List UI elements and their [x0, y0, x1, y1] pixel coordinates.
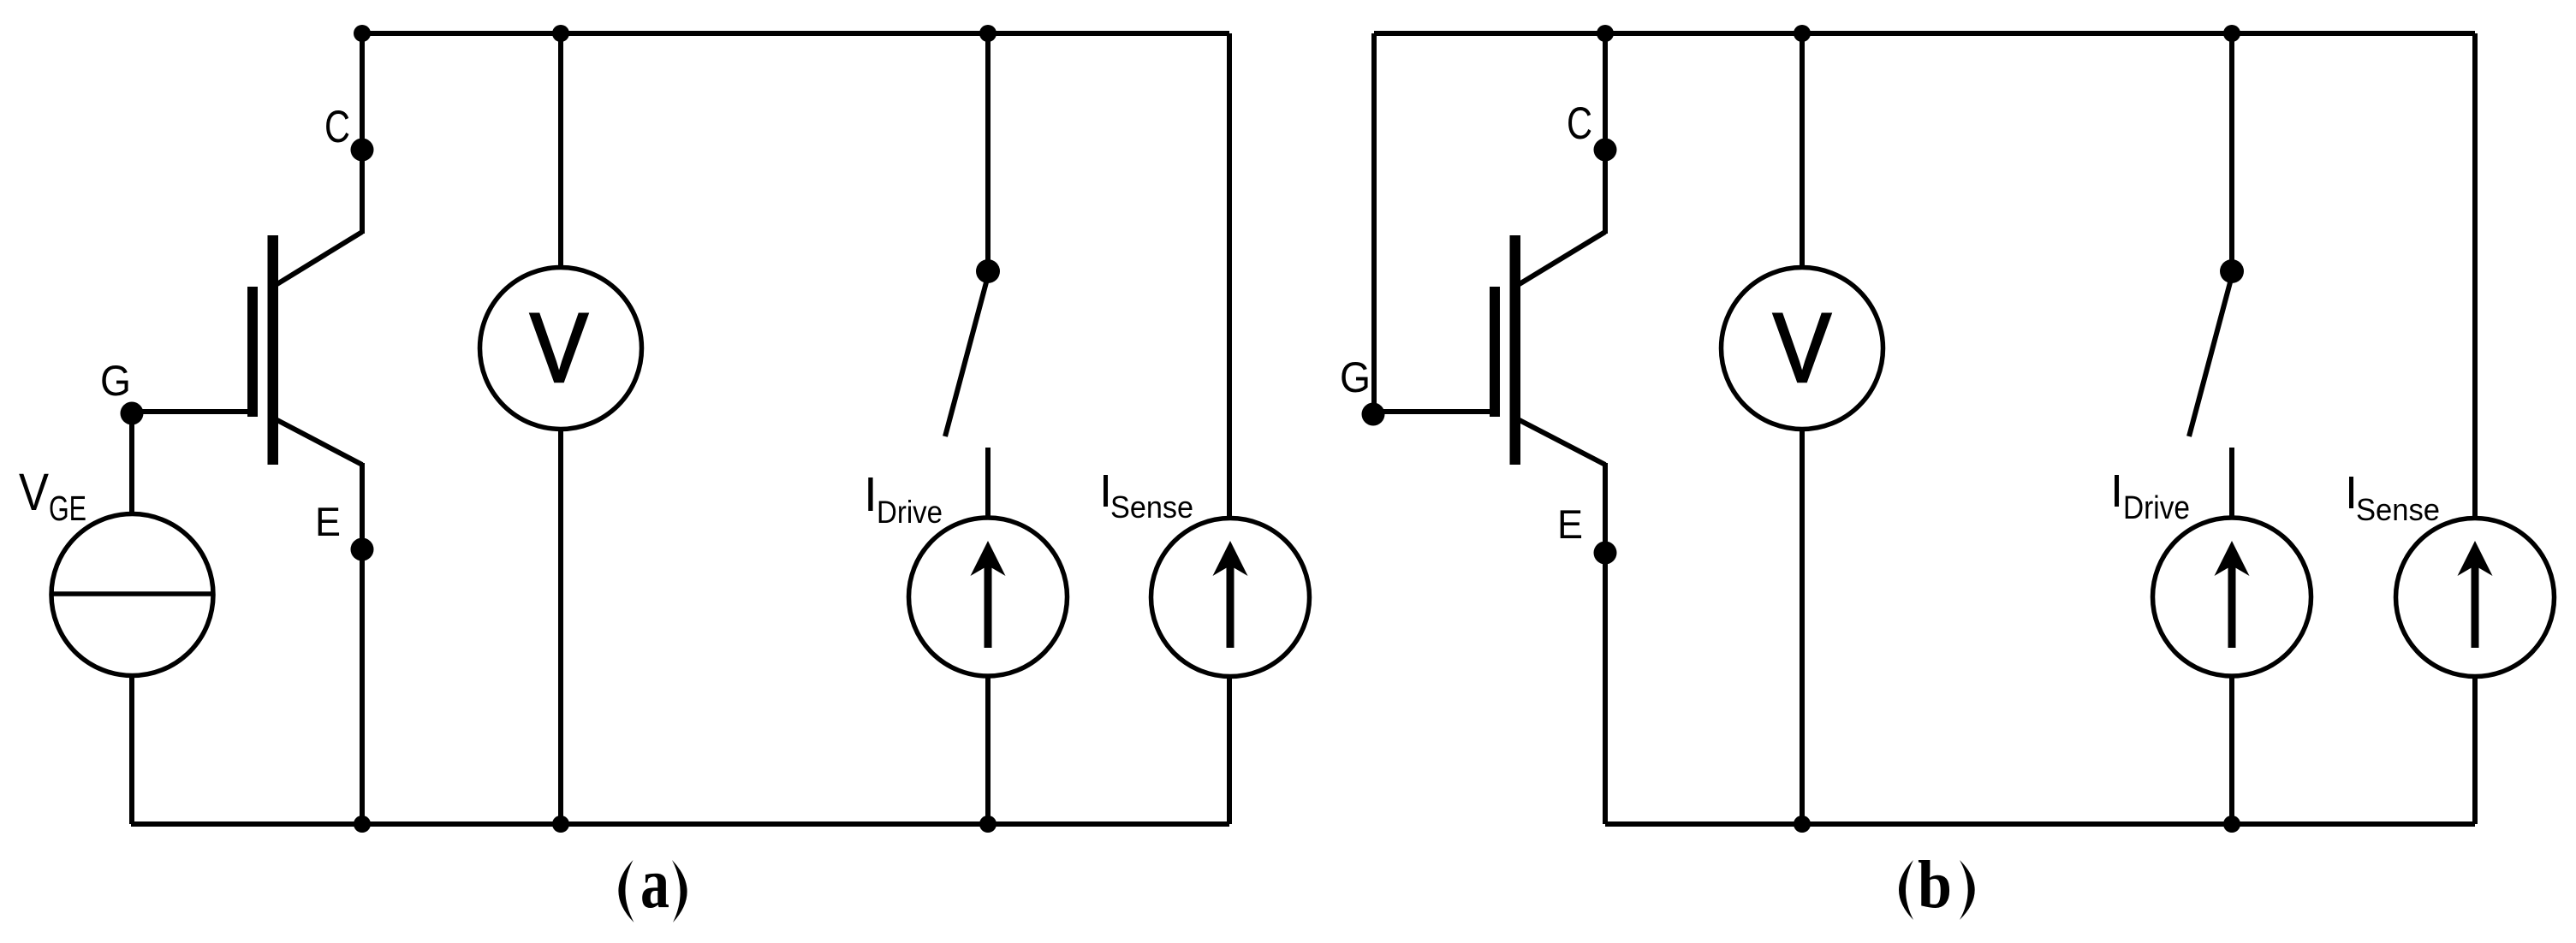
wire collector branch vertical (a) [360, 33, 365, 234]
svg-text:V: V [1773, 294, 1831, 403]
node C terminal dot (a) [351, 139, 374, 162]
wire left gate rail (b) [1371, 33, 1377, 414]
current source IDrive arrow shaft (b) [2228, 558, 2236, 648]
current source ISense arrow shaft (a) [1227, 558, 1234, 648]
current source IDrive arrow head (a) [971, 541, 1006, 576]
wire switch branch vertical (b) [2229, 33, 2234, 262]
wire gate lead (b) [1373, 409, 1496, 414]
node dot voltmeter top junction (a) [552, 25, 569, 42]
svg-text:Sense: Sense [1110, 489, 1193, 525]
svg-text:E: E [1557, 501, 1583, 547]
wire collector diagonal (b) [1518, 232, 1605, 285]
caption (a) right paren [672, 860, 687, 922]
current source ISense arrow head (b) [2458, 541, 2493, 576]
svg-text:Drive: Drive [877, 495, 943, 530]
node C terminal dot (b) [1594, 139, 1617, 162]
wire voltmeter top lead (b) [1800, 33, 1805, 268]
svg-text:V: V [530, 294, 588, 403]
svg-text:C: C [1567, 98, 1592, 149]
current source ISense circle (b) [2396, 519, 2555, 677]
transistor IGBT body bar (b) [1510, 235, 1521, 465]
current source ISense circle (a) [1151, 519, 1310, 677]
transistor IGBT gate bar (b) [1490, 287, 1500, 417]
wire switch to IDrive stub (a) [985, 448, 991, 517]
svg-text:G: G [100, 357, 131, 405]
node G terminal dot (a) [121, 402, 144, 425]
wire VGE top lead (a) [129, 413, 134, 514]
svg-text:I: I [2110, 466, 2123, 517]
svg-text:G: G [1340, 353, 1371, 401]
current source IDrive arrow shaft (a) [985, 558, 992, 648]
node dot voltmeter bottom junction (a) [552, 815, 569, 833]
svg-text:I: I [864, 467, 878, 522]
wire collector branch vertical (b) [1603, 33, 1608, 234]
wire collector diagonal (a) [276, 232, 362, 285]
wire top rail (b) [1374, 31, 2475, 36]
caption (b) right paren [1960, 860, 1975, 920]
svg-text:Sense: Sense [2356, 492, 2440, 527]
wire voltmeter bottom lead (b) [1800, 429, 1805, 824]
node dot switch top junction (a) [979, 25, 996, 42]
caption (b) [1899, 848, 1975, 922]
node G terminal dot (b) [1362, 403, 1385, 426]
wire VGE bottom lead (a) [129, 675, 134, 824]
node E terminal dot (a) [351, 538, 374, 561]
caption (a) left paren [618, 860, 634, 922]
current source IDrive circle (a) [909, 518, 1068, 676]
wire emitter branch vertical (a) [360, 463, 365, 824]
wire voltmeter top lead (a) [558, 33, 563, 268]
voltage source VGE circle (a) [51, 514, 213, 676]
node dot switch top junction (b) [2223, 25, 2240, 42]
svg-text:Drive: Drive [2123, 490, 2190, 526]
voltmeter V circle (b) [1722, 268, 1883, 430]
svg-text:V: V [19, 463, 49, 521]
wire emitter branch vertical (b) [1603, 463, 1608, 824]
wire voltmeter bottom lead (a) [558, 429, 563, 824]
node dot voltmeter bottom junction (b) [1794, 815, 1811, 833]
svg-text:E: E [315, 499, 341, 544]
caption (a) [618, 844, 687, 923]
svg-text:GE: GE [49, 489, 86, 528]
node dot IDrive bottom junction (b) [2223, 815, 2240, 833]
switch pivot dot (b) [2220, 259, 2244, 283]
wire emitter diagonal (a) [276, 419, 362, 465]
svg-text:a: a [640, 844, 669, 923]
wire ISense branch vertical (a) [1227, 33, 1232, 517]
transistor IGBT gate bar (a) [247, 287, 258, 417]
switch blade (a) [945, 282, 986, 436]
wire gate lead (a) [132, 409, 254, 414]
node dot collector top junction (b) [1597, 25, 1614, 42]
current source IDrive arrow head (b) [2215, 541, 2250, 576]
node dot voltmeter top junction (b) [1794, 25, 1811, 42]
transistor IGBT body bar (a) [268, 235, 279, 465]
switch pivot dot (a) [976, 259, 1000, 283]
node dot IDrive bottom junction (a) [979, 815, 996, 833]
voltage source VGE bar (a) [52, 591, 212, 596]
wire switch branch vertical (a) [985, 33, 991, 262]
current source IDrive circle (b) [2153, 518, 2311, 676]
switch blade (b) [2189, 282, 2230, 436]
wire ISense bottom lead (a) [1227, 678, 1232, 824]
wire ISense bottom lead (b) [2472, 678, 2478, 824]
node E terminal dot (b) [1594, 542, 1617, 565]
voltmeter V circle (a) [480, 268, 642, 430]
wire bottom rail (b) [1605, 821, 2475, 827]
wire ISense branch vertical (b) [2472, 33, 2478, 517]
node dot top-left corner (a) [354, 25, 371, 42]
wire switch to IDrive stub (b) [2229, 448, 2234, 517]
current source ISense arrow head (a) [1213, 541, 1248, 576]
wire emitter diagonal (b) [1518, 419, 1605, 465]
wire top rail (a) [362, 31, 1229, 36]
caption (b) left paren [1899, 860, 1913, 920]
wire bottom rail (a) [131, 821, 1229, 827]
current source ISense arrow shaft (b) [2472, 558, 2479, 648]
wire IDrive bottom lead (b) [2229, 676, 2234, 824]
node dot emitter bottom junction (a) [354, 815, 371, 833]
svg-text:b: b [1918, 848, 1952, 922]
svg-text:C: C [324, 102, 350, 152]
wire IDrive bottom lead (a) [985, 676, 991, 824]
